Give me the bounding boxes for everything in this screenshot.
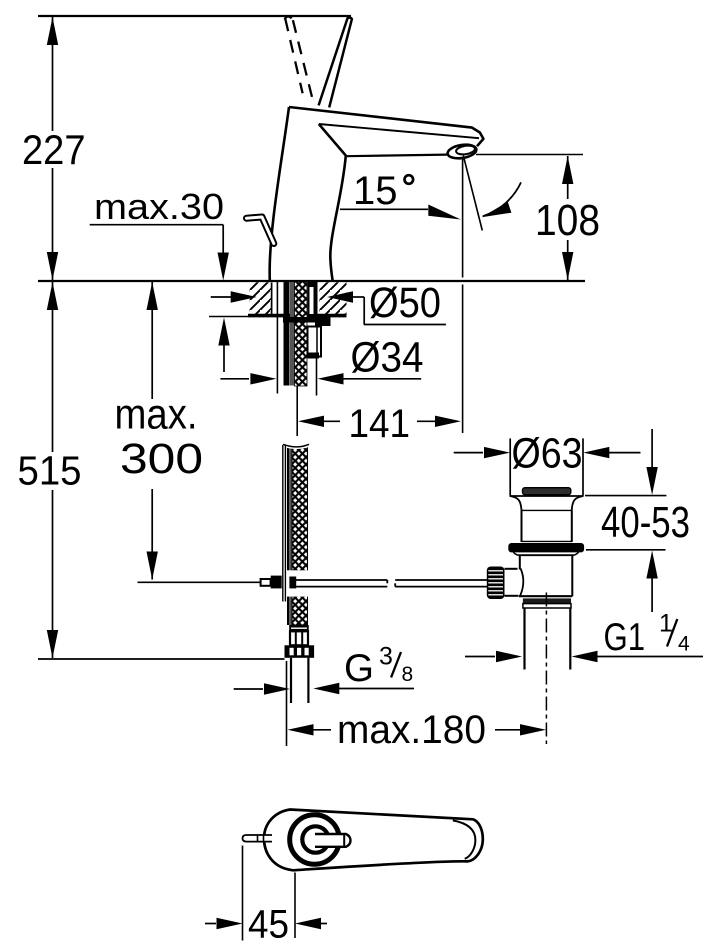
rod pivot block right: [289, 577, 296, 589]
svg-text:max.30: max.30: [94, 186, 224, 227]
svg-text:4: 4: [678, 633, 690, 656]
angle arc arrowhead: [482, 202, 512, 217]
svg-text:G1: G1: [604, 616, 646, 659]
svg-text:3: 3: [379, 643, 393, 671]
drain flange bottom: [510, 495, 584, 497]
dimension G3/8: [234, 643, 414, 695]
handle side pin: [243, 835, 273, 842]
counter line: [38, 280, 585, 282]
top reference line: [38, 15, 351, 17]
dimension D63: [454, 430, 641, 478]
max180 left extension line: [286, 661, 288, 746]
dimension 40-53: [585, 429, 690, 612]
water stream line: [463, 156, 482, 231]
spout outlet aerator: [447, 143, 478, 160]
drain flange sides / D63 extension lines: [509, 438, 511, 495]
svg-text:300: 300: [120, 435, 203, 483]
svg-text:15: 15: [353, 169, 398, 213]
svg-text:8: 8: [402, 663, 414, 686]
svg-text:Ø50: Ø50: [369, 279, 441, 327]
flexible hose: [282, 443, 310, 625]
hose white interruption at rod: [279, 570, 311, 596]
counter cross-section hatch: [209, 282, 347, 316]
faucet body: [270, 107, 484, 281]
rod pivot clamp: [261, 579, 271, 586]
drain body shoulder: [518, 554, 573, 556]
svg-text:227: 227: [22, 126, 86, 173]
drain coupling rings: [523, 598, 571, 603]
hose connector: [285, 625, 315, 703]
dimension max.30: [90, 186, 230, 372]
dimension 141: [297, 386, 461, 446]
dimension max.180: [288, 708, 547, 752]
svg-text:Ø63: Ø63: [512, 430, 583, 478]
dimension 515: [18, 282, 82, 658]
drain body: [519, 555, 521, 569]
drain gasket: [508, 543, 584, 552]
dimension D34: [220, 334, 423, 385]
dimension 45: [205, 846, 327, 947]
svg-text:G: G: [344, 647, 374, 690]
handle cartridge rings: [290, 815, 340, 865]
svg-text:108: 108: [535, 196, 600, 245]
drain cap: [523, 488, 571, 495]
515 bottom reference line: [38, 658, 285, 660]
svg-text:Ø34: Ø34: [351, 334, 424, 382]
svg-text:45: 45: [248, 903, 289, 947]
svg-text:40-53: 40-53: [601, 498, 690, 547]
dimension G1 1/4: [465, 610, 703, 663]
rod level reference line: [138, 581, 261, 583]
lever handle (solid, up position): [319, 18, 352, 108]
lever handle (dashed alternate position): [285, 17, 313, 100]
dimension D50: [211, 279, 446, 327]
dimension 108: [535, 156, 600, 280]
dimension 227: [22, 17, 86, 280]
svg-text:max.180: max.180: [337, 708, 486, 752]
drain assembly: [508, 438, 584, 744]
angle arc: [483, 182, 521, 216]
handle top view: [243, 810, 483, 871]
rod pivot block left: [271, 576, 282, 589]
drain neck: [521, 509, 523, 542]
dimension 15 deg: [340, 169, 461, 220]
outlet vertical reference line: [462, 158, 464, 278]
drain tailpipe: [523, 608, 525, 670]
svg-text:141: 141: [349, 402, 411, 446]
svg-text:515: 515: [18, 448, 82, 494]
outlet level reference line: [476, 154, 583, 156]
pop-up rod knob (behind body): [247, 217, 274, 244]
drain knob: [487, 567, 519, 600]
svg-text:max.: max.: [115, 391, 198, 439]
handle stub pin: [315, 834, 351, 847]
pop-up rod vertical: [283, 445, 286, 602]
mounting shank and hardware: [277, 282, 330, 396]
drain centerline: [545, 593, 547, 745]
horizontal linkage rod: [296, 580, 488, 587]
dimension max.300: [115, 282, 204, 580]
